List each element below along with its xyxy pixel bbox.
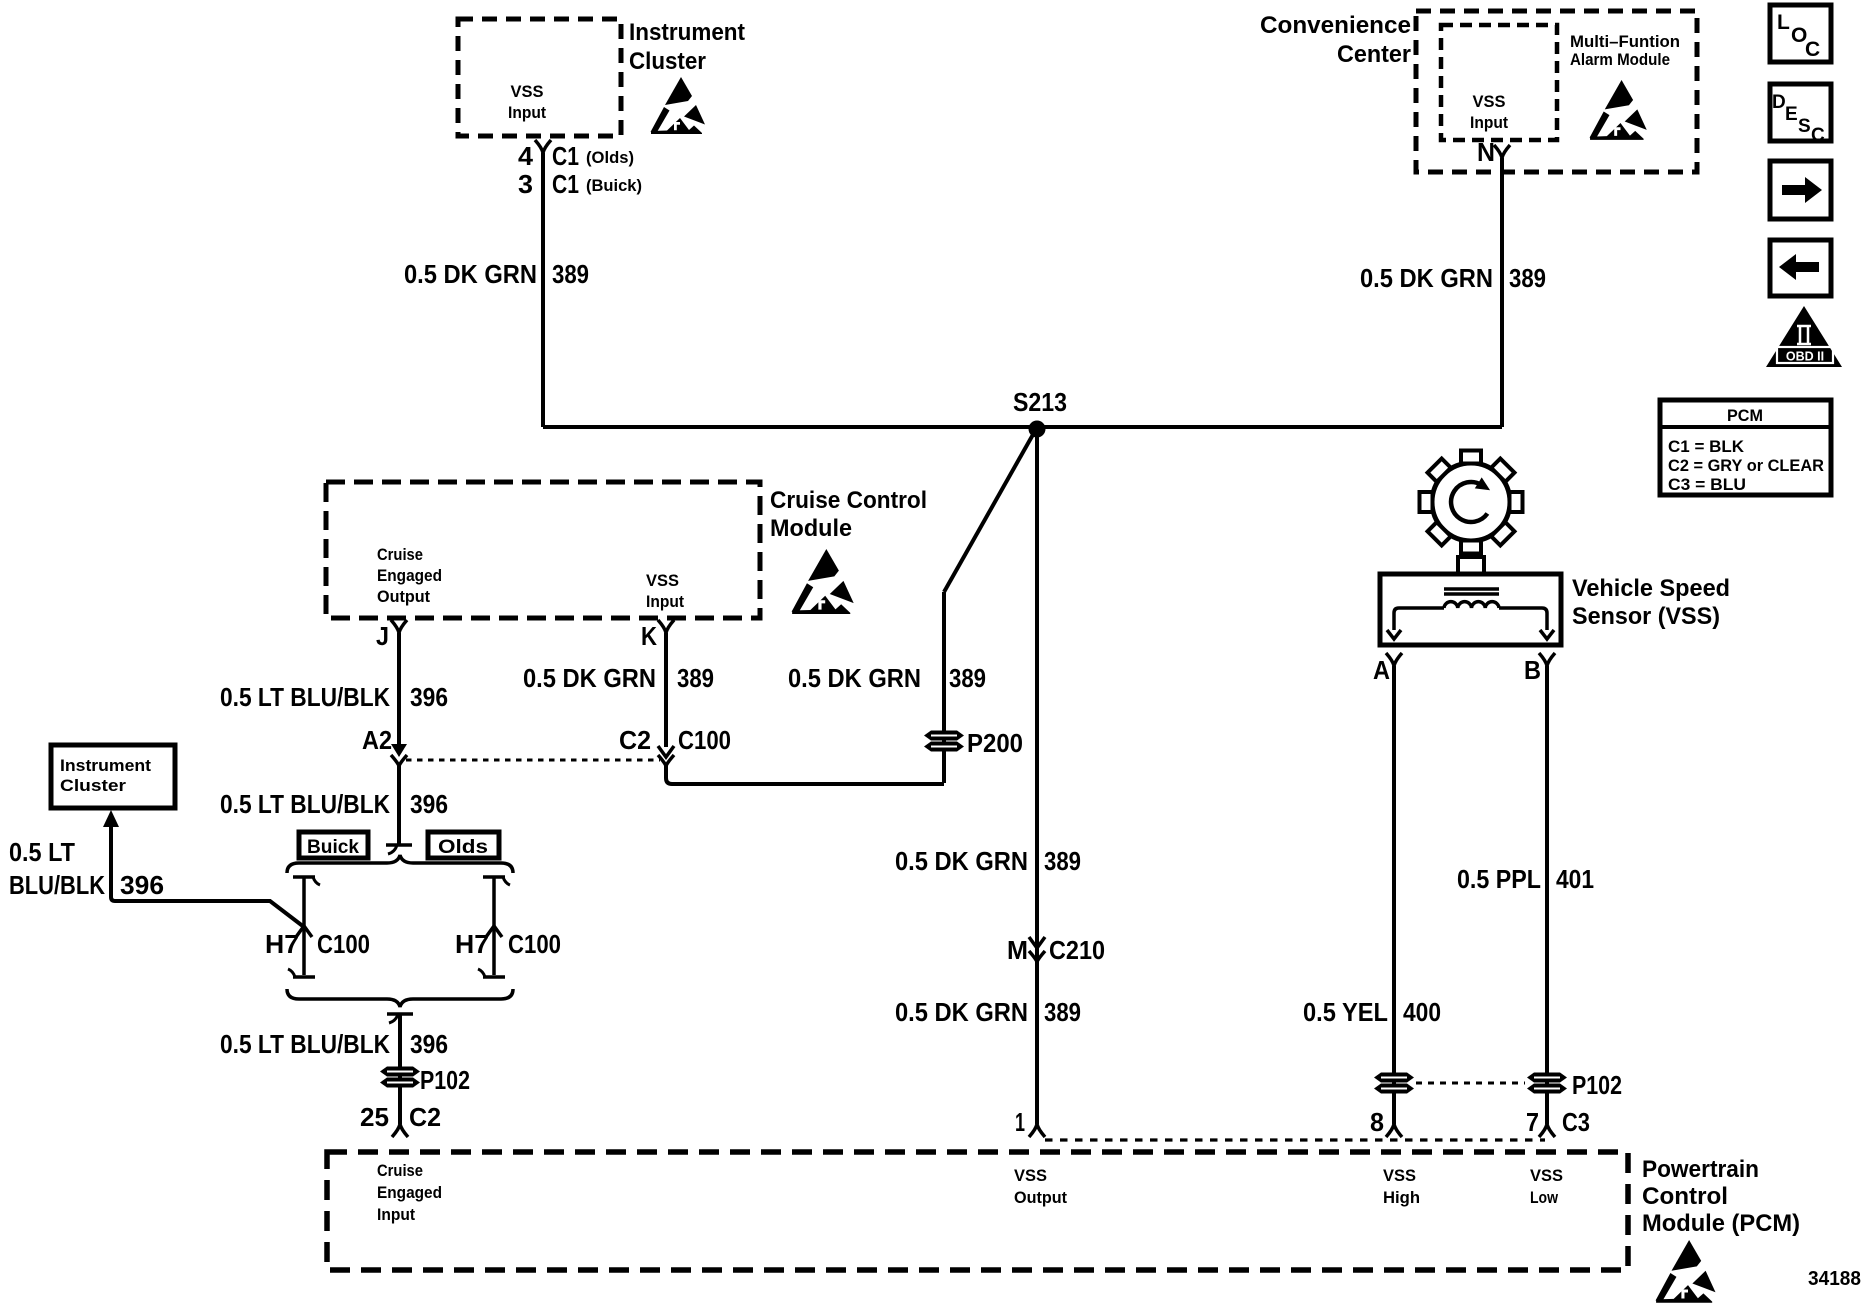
svg-text:Engaged: Engaged <box>377 1183 442 1202</box>
svg-text:S: S <box>1798 116 1811 137</box>
svg-text:Cruise: Cruise <box>377 1161 423 1180</box>
svg-text:Instrument: Instrument <box>60 756 151 775</box>
svg-text:Sensor (VSS): Sensor (VSS) <box>1572 603 1720 630</box>
svg-text:C100: C100 <box>678 725 731 755</box>
svg-text:VSS: VSS <box>1473 92 1506 111</box>
svg-text:Cruise: Cruise <box>377 545 423 564</box>
svg-text:1: 1 <box>1015 1107 1025 1137</box>
svg-text:Cluster: Cluster <box>629 48 706 75</box>
svg-text:0.5 LT BLU/BLK: 0.5 LT BLU/BLK <box>220 682 390 712</box>
svg-text:0.5 DK GRN: 0.5 DK GRN <box>404 259 537 289</box>
svg-text:H7: H7 <box>265 929 299 959</box>
svg-text:Low: Low <box>1530 1188 1559 1207</box>
svg-text:C1 = BLK: C1 = BLK <box>1668 437 1745 456</box>
svg-text:C2: C2 <box>619 725 651 755</box>
svg-text:34188: 34188 <box>1808 1268 1861 1290</box>
svg-text:25: 25 <box>360 1102 389 1132</box>
svg-text:Engaged: Engaged <box>377 566 442 585</box>
svg-text:396: 396 <box>120 870 164 900</box>
svg-text:VSS: VSS <box>1014 1166 1047 1185</box>
svg-text:C100: C100 <box>508 929 561 959</box>
svg-text:389: 389 <box>1044 846 1081 876</box>
svg-text:C3: C3 <box>1562 1107 1590 1137</box>
svg-text:Multi–Funtion: Multi–Funtion <box>1570 32 1680 51</box>
svg-text:Center: Center <box>1337 41 1411 68</box>
svg-text:C1: C1 <box>552 141 579 171</box>
svg-text:Module (PCM): Module (PCM) <box>1642 1210 1800 1237</box>
svg-text:3: 3 <box>518 169 533 199</box>
svg-text:389: 389 <box>1044 997 1081 1027</box>
svg-text:Buick: Buick <box>307 837 359 858</box>
svg-text:BLU/BLK: BLU/BLK <box>9 870 105 900</box>
svg-text:Input: Input <box>1470 113 1508 132</box>
svg-text:Olds: Olds <box>438 837 488 858</box>
svg-text:S213: S213 <box>1013 387 1067 417</box>
svg-text:401: 401 <box>1556 864 1594 894</box>
svg-text:P102: P102 <box>420 1065 470 1095</box>
svg-text:396: 396 <box>410 1029 448 1059</box>
svg-text:0.5 LT BLU/BLK: 0.5 LT BLU/BLK <box>220 789 390 819</box>
svg-text:Output: Output <box>1014 1188 1067 1207</box>
svg-text:Alarm Module: Alarm Module <box>1570 50 1670 69</box>
svg-text:L: L <box>1777 11 1790 34</box>
svg-text:0.5 DK GRN: 0.5 DK GRN <box>895 997 1028 1027</box>
svg-text:C: C <box>1805 38 1820 61</box>
svg-text:VSS: VSS <box>1383 1166 1416 1185</box>
svg-text:C1: C1 <box>552 169 579 199</box>
svg-text:C2 = GRY or CLEAR: C2 = GRY or CLEAR <box>1668 456 1824 475</box>
svg-text:4: 4 <box>518 141 534 171</box>
svg-text:K: K <box>641 621 657 651</box>
svg-text:396: 396 <box>410 682 448 712</box>
svg-text:J: J <box>376 621 389 651</box>
svg-text:7: 7 <box>1526 1107 1539 1137</box>
svg-text:(Olds): (Olds) <box>586 148 634 167</box>
svg-text:0.5 YEL: 0.5 YEL <box>1303 997 1388 1027</box>
svg-text:Cluster: Cluster <box>60 776 126 795</box>
svg-text:D: D <box>1772 92 1786 113</box>
svg-text:0.5 PPL: 0.5 PPL <box>1457 864 1541 894</box>
svg-text:Input: Input <box>508 103 546 122</box>
svg-text:P200: P200 <box>967 728 1023 758</box>
svg-text:0.5 DK GRN: 0.5 DK GRN <box>523 663 656 693</box>
svg-text:0.5 LT BLU/BLK: 0.5 LT BLU/BLK <box>220 1029 390 1059</box>
svg-text:High: High <box>1383 1188 1420 1207</box>
svg-text:VSS: VSS <box>646 571 679 590</box>
svg-text:Output: Output <box>377 587 430 606</box>
svg-text:E: E <box>1785 104 1798 125</box>
svg-text:N: N <box>1477 137 1495 167</box>
svg-text:0.5 DK GRN: 0.5 DK GRN <box>895 846 1028 876</box>
svg-text:Vehicle Speed: Vehicle Speed <box>1572 575 1730 602</box>
svg-text:0.5 DK GRN: 0.5 DK GRN <box>788 663 921 693</box>
svg-text:Powertrain: Powertrain <box>1642 1156 1759 1183</box>
svg-text:C210: C210 <box>1049 935 1105 965</box>
svg-text:Control: Control <box>1642 1183 1728 1210</box>
svg-text:396: 396 <box>410 789 448 819</box>
svg-text:C100: C100 <box>317 929 370 959</box>
svg-text:0.5 LT: 0.5 LT <box>9 837 75 867</box>
svg-text:389: 389 <box>677 663 714 693</box>
svg-text:389: 389 <box>1509 263 1546 293</box>
svg-text:C3 = BLU: C3 = BLU <box>1668 475 1746 494</box>
svg-text:VSS: VSS <box>1530 1166 1563 1185</box>
svg-text:8: 8 <box>1370 1107 1384 1137</box>
svg-text:H7: H7 <box>455 929 489 959</box>
svg-text:PCM: PCM <box>1727 406 1763 425</box>
svg-text:Convenience: Convenience <box>1260 12 1411 39</box>
svg-text:Cruise Control: Cruise Control <box>770 487 927 514</box>
svg-text:Input: Input <box>377 1205 415 1224</box>
svg-text:C: C <box>1811 125 1825 146</box>
svg-text:(Buick): (Buick) <box>586 176 642 195</box>
svg-text:0.5 DK GRN: 0.5 DK GRN <box>1360 263 1493 293</box>
svg-text:Module: Module <box>770 515 852 542</box>
svg-text:400: 400 <box>1403 997 1441 1027</box>
svg-text:P102: P102 <box>1572 1070 1622 1100</box>
svg-text:C2: C2 <box>409 1102 441 1132</box>
svg-text:389: 389 <box>552 259 589 289</box>
svg-text:VSS: VSS <box>511 82 544 101</box>
svg-text:A2: A2 <box>362 725 392 755</box>
svg-text:Input: Input <box>646 592 684 611</box>
svg-text:389: 389 <box>949 663 986 693</box>
svg-text:M: M <box>1007 935 1028 965</box>
svg-text:B: B <box>1524 655 1541 685</box>
svg-text:Instrument: Instrument <box>629 19 745 46</box>
svg-text:A: A <box>1373 655 1390 685</box>
svg-text:OBD II: OBD II <box>1786 350 1824 364</box>
